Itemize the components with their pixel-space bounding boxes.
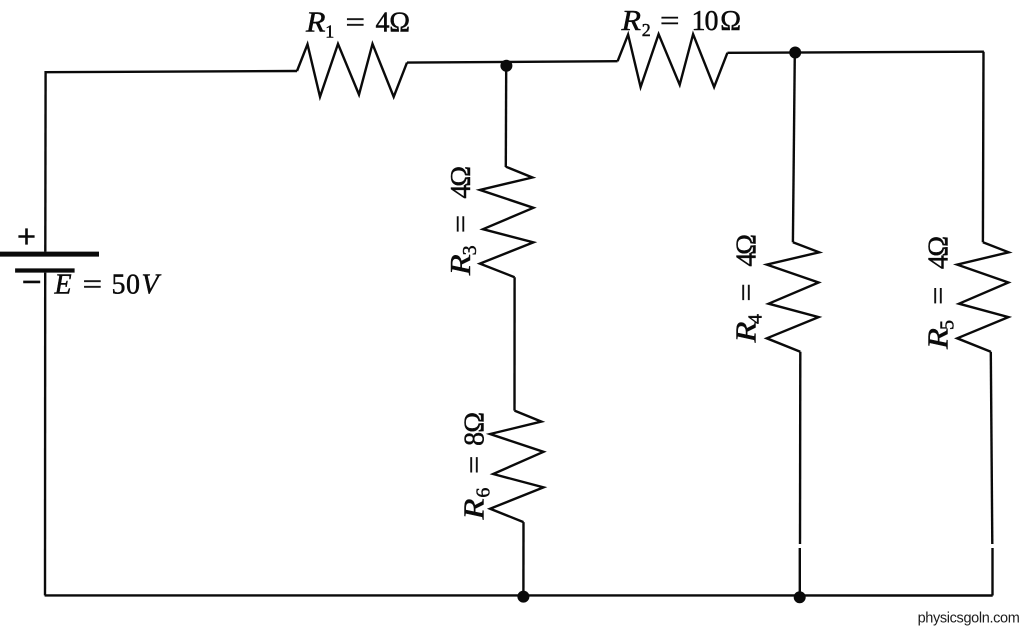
svg-text:R1=4Ω: R1=4Ω [305, 8, 410, 42]
battery E positive plate [0, 252, 99, 257]
battery minus sign [23, 281, 40, 284]
svg-text:R4=4Ω: R4=4Ω [732, 234, 767, 344]
svg-text:R5=4Ω: R5=4Ω [924, 236, 959, 350]
wire node B down to R4 [793, 53, 795, 243]
node B dot [789, 47, 801, 59]
svg-text:physicsgoln.com: physicsgoln.com [918, 611, 1020, 627]
svg-text:R2=10Ω: R2=10Ω [620, 6, 741, 40]
svg-text:R6=8Ω: R6=8Ω [460, 412, 495, 521]
wire R5 down (lower segment) [991, 548, 993, 596]
resistor R4 [767, 242, 819, 351]
wire R2 to top-right corner [727, 52, 984, 53]
junction dot bottom of R6 [517, 591, 529, 603]
resistor R6 [490, 411, 543, 522]
battery plus sign [18, 228, 34, 244]
wire between R1 and R2 [407, 61, 618, 62]
wire R5 down (upper segment) [991, 352, 993, 544]
battery E negative plate [15, 268, 75, 272]
resistor R3 [480, 167, 534, 278]
wire R3 to R6 [513, 277, 515, 410]
wire node A down to R3 [505, 66, 508, 167]
resistor R1 [297, 44, 407, 97]
node A dot [500, 60, 512, 72]
wire top-right corner down to R5 [982, 52, 985, 243]
wire R4 down (upper segment) [799, 352, 802, 544]
wire bottom rail [45, 594, 993, 596]
wire top-left horizontal [45, 71, 297, 72]
resistor R5 [957, 242, 1009, 351]
svg-text:E=50V: E=50V [54, 270, 162, 301]
wire R4 down (lower segment) [799, 548, 801, 596]
resistor R2 [618, 34, 728, 87]
wire R6 to bottom rail [522, 522, 524, 596]
wire left vertical upper (top rail to battery +) [44, 71, 47, 252]
wire left vertical lower (battery - to bottom rail) [44, 273, 47, 596]
junction dot bottom of R4 [794, 591, 806, 603]
svg-text:R3=4Ω: R3=4Ω [446, 166, 481, 276]
